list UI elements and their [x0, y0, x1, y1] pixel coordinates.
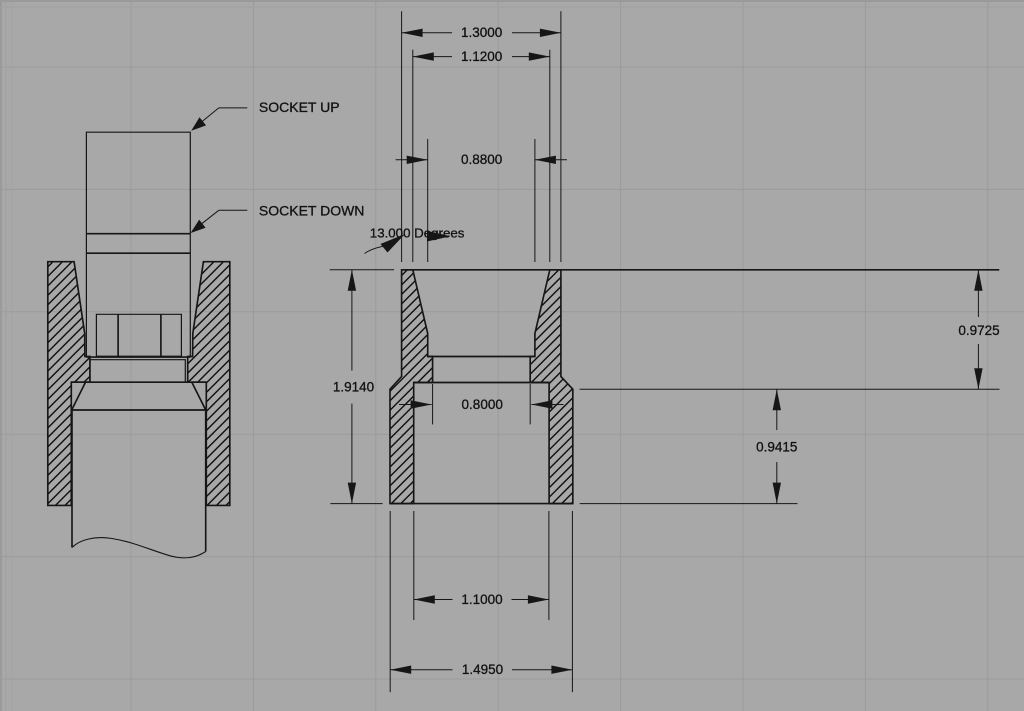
svg-text:13.000 Degrees: 13.000 Degrees	[370, 226, 465, 241]
svg-text:1.9140: 1.9140	[333, 380, 374, 395]
svg-text:1.3000: 1.3000	[461, 25, 502, 40]
svg-text:SOCKET DOWN: SOCKET DOWN	[259, 203, 365, 219]
svg-text:0.9725: 0.9725	[958, 323, 999, 338]
svg-text:1.1000: 1.1000	[461, 592, 502, 607]
svg-text:0.9415: 0.9415	[756, 439, 797, 454]
svg-text:1.1200: 1.1200	[461, 49, 502, 64]
svg-text:SOCKET UP: SOCKET UP	[259, 99, 340, 115]
svg-text:0.8000: 0.8000	[462, 397, 503, 412]
svg-text:0.8800: 0.8800	[461, 152, 502, 167]
svg-text:1.4950: 1.4950	[462, 662, 503, 677]
